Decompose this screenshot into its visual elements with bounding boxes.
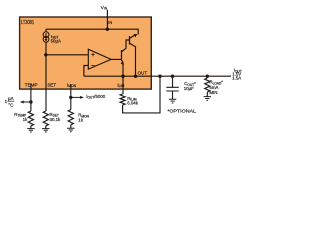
svg-text:OUT: OUT xyxy=(137,70,147,75)
node IMON junction xyxy=(69,96,72,99)
resistor RSET xyxy=(43,111,61,126)
node COUT tap xyxy=(171,75,174,78)
wire internal top rail xyxy=(46,29,138,34)
svg-text:1k: 1k xyxy=(23,117,28,122)
svg-text:ILIM: ILIM xyxy=(117,82,124,88)
ground below RSET xyxy=(42,126,49,132)
node IN junction xyxy=(106,28,109,31)
arrow IMON current IOUT/5000 xyxy=(71,96,84,99)
ground below RLOAD xyxy=(204,97,211,101)
node TEMP junction xyxy=(29,100,32,103)
wire Q2 emitter down to OUT rail xyxy=(135,47,137,77)
resistor RLOAD 5mA MIN xyxy=(205,76,224,96)
node VOUT output labels xyxy=(232,68,242,81)
svg-text:1k: 1k xyxy=(78,117,83,122)
svg-text:IMON: IMON xyxy=(67,82,77,88)
svg-text:6.04k: 6.04k xyxy=(127,101,139,106)
wire SET node to op-amp + input xyxy=(46,54,89,56)
resistor RILIM xyxy=(120,90,139,106)
svg-text:IN: IN xyxy=(108,20,112,25)
op-amp error amplifier A1 xyxy=(88,49,111,69)
svg-text:SET: SET xyxy=(48,82,57,87)
svg-text:30.1k: 30.1k xyxy=(50,117,62,122)
wire internal OUT rail and output line xyxy=(84,75,231,77)
svg-text:MIN: MIN xyxy=(209,90,217,95)
ground below RMON xyxy=(67,125,74,132)
wire SET pin down xyxy=(45,90,47,112)
svg-text:50µA: 50µA xyxy=(51,38,61,43)
wire VIN to IN pin xyxy=(106,10,108,29)
current source ISET 50uA xyxy=(43,29,61,43)
ground below COUT xyxy=(169,99,176,103)
wire op-amp output to Q1 base xyxy=(111,58,122,60)
transistor Q1 xyxy=(121,40,130,65)
wire TEMP pin down xyxy=(30,84,32,111)
arrow TEMP current 1uA/C xyxy=(20,101,31,104)
wire RILIM return to output node xyxy=(123,76,160,113)
wire Q1 emitter to ILIM pin through OUT rail xyxy=(122,62,124,89)
regulator U1 LT3081 block xyxy=(20,17,152,89)
resistor RMON xyxy=(68,110,89,125)
node Q1 emitter on OUT rail xyxy=(121,75,124,78)
svg-text:IOUT/5000: IOUT/5000 xyxy=(86,94,106,100)
node Q2 emitter on OUT rail xyxy=(134,75,137,78)
wire op-amp feedback from - input to OUT rail xyxy=(84,66,88,77)
node RILIM tap on output line xyxy=(158,75,161,78)
wire IMON pin down xyxy=(70,84,72,110)
capacitor COUT 10uF xyxy=(166,76,196,99)
svg-text:LT3081: LT3081 xyxy=(21,20,34,26)
svg-text:°C: °C xyxy=(8,102,14,107)
transistor Q2 xyxy=(130,34,138,47)
node RLOAD tap xyxy=(206,75,209,78)
label 1uA/C fraction xyxy=(5,96,15,107)
svg-text:1.5A: 1.5A xyxy=(232,76,241,81)
resistor RTEMP xyxy=(14,111,33,126)
svg-text:10µF: 10µF xyxy=(184,86,194,91)
svg-text:VIN: VIN xyxy=(101,5,108,11)
svg-text:µA: µA xyxy=(8,96,14,101)
wire SET node down to SET pin xyxy=(45,42,47,89)
node SET junction xyxy=(44,53,47,56)
svg-text:*OPTIONAL: *OPTIONAL xyxy=(167,109,196,115)
ground below RTEMP xyxy=(27,126,34,132)
node VIN xyxy=(101,5,108,11)
